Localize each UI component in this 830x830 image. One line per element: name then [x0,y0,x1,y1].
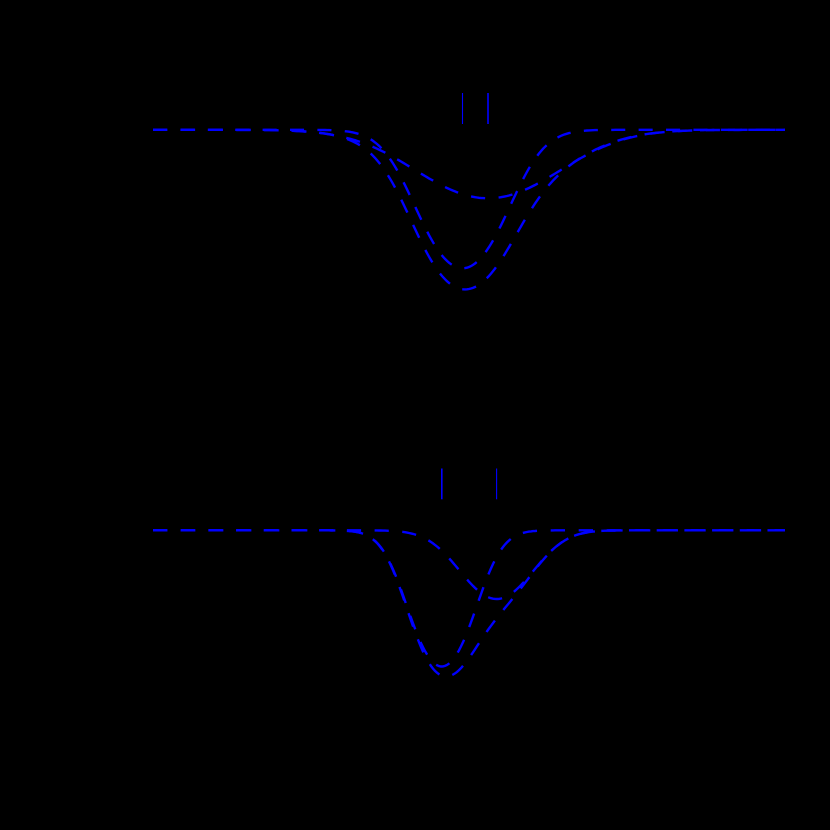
bottom panel: narrow component profile [153,530,785,666]
bottom panel: component tick mark 2 [496,469,498,500]
top panel: combined model profile [153,130,785,290]
bottom panel: combined model profile [153,530,785,676]
top panel: broad component profile [153,130,785,199]
bottom panel: component tick mark 1 [441,469,443,500]
top panel: component tick mark 2 [487,93,489,124]
top panel: component tick mark 1 [462,93,464,124]
top panel: narrow component profile [153,130,785,268]
bottom panel: medium component profile [153,530,785,599]
